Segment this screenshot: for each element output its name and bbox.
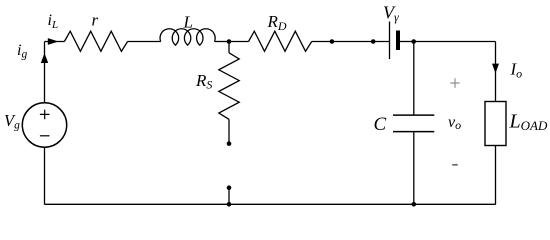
node F dot stub-rail junction [227,202,232,207]
wire top-left horizontal [45,41,65,43]
node C dot [371,39,376,44]
arrow I_o [492,64,499,74]
wire R_D to node B [312,41,332,43]
capacitor C top plate [393,114,434,116]
wire L to node A [215,41,230,43]
wire node A down to R_S [228,42,230,53]
wire bottom rail left segment [45,203,230,205]
svg-text:r: r [92,11,99,30]
wire load to bottom rail [495,146,497,205]
source V_g circle [22,103,66,147]
wire node C to battery [373,41,389,43]
svg-text:C: C [374,114,387,135]
open terminal upper dot [227,141,232,146]
wire R_S to open terminal [228,119,230,143]
node D dot [411,39,416,44]
wire left vertical bottom [44,147,46,204]
wire capacitor to bottom rail [413,132,415,204]
node B dot [330,39,335,44]
wire left vertical top [44,42,46,103]
wire r to L [128,41,161,43]
inductor L [160,29,215,45]
open terminal lower dot [227,185,232,190]
wire bottom rail middle segment [229,203,414,205]
resistor r [64,31,127,51]
arrow i_L [48,38,59,45]
svg-text:L: L [183,13,193,32]
resistor R_D [249,31,312,51]
wire right vertical to load [495,42,497,102]
battery V_gamma short thick plate [396,31,400,51]
node A junction dot [227,39,232,44]
wire battery to node D [400,41,414,43]
capacitor C bottom plate [393,131,434,133]
wire bottom rail right segment [414,203,496,205]
arrow i_g [41,53,48,63]
battery V_gamma long plate [389,22,391,60]
source V_g minus sign [40,135,50,137]
node E dot capacitor-rail junction [412,202,417,207]
label minus v_o [452,164,458,166]
resistor R_S [219,53,239,120]
wire node D to top-right corner [414,41,496,43]
wire node D down to capacitor [413,42,415,115]
wire node A to R_D [229,41,249,43]
wire lower terminal to bottom rail [228,188,230,205]
wire node B to node C [332,41,373,43]
load resistor L_OAD box [485,102,506,146]
label plus v_o [450,78,459,88]
source V_g plus sign [40,110,50,120]
